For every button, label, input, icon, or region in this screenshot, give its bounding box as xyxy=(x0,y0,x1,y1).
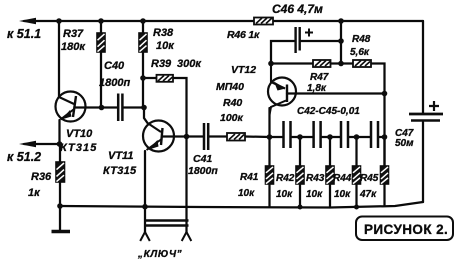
terminal arrow K51.1 xyxy=(7,18,41,41)
terminal arrow K51.2 xyxy=(7,141,41,164)
resistor R36 xyxy=(28,162,65,199)
svg-text:КТ315: КТ315 xyxy=(60,142,97,154)
svg-text:VT12: VT12 xyxy=(231,64,256,76)
node ladder A xyxy=(267,134,273,140)
svg-text:10к: 10к xyxy=(334,189,351,200)
wire R47 emitter line left segment xyxy=(271,62,313,64)
resistor R40 xyxy=(227,133,245,141)
svg-text:180к: 180к xyxy=(61,41,86,53)
wire R36 chain to ground xyxy=(59,144,61,231)
wire VT11 emitter down to rail xyxy=(144,151,146,232)
label C42-C45 value xyxy=(297,106,360,117)
svg-text:R40: R40 xyxy=(223,97,242,109)
resistor R39 xyxy=(151,58,202,82)
wire R41 vertical xyxy=(268,137,270,207)
svg-text:R39: R39 xyxy=(151,58,172,70)
resistor R45 xyxy=(359,166,389,200)
svg-text:R43: R43 xyxy=(306,173,325,184)
capacitor C41 xyxy=(188,123,218,177)
node R47 left xyxy=(268,61,274,67)
wire VT10 emitter down xyxy=(58,120,60,144)
node rail-C46 xyxy=(338,18,344,24)
svg-text:1800п: 1800п xyxy=(99,77,130,89)
svg-text:МП40: МП40 xyxy=(216,81,244,93)
capacitor C43 xyxy=(314,121,321,148)
svg-text:50м: 50м xyxy=(395,138,414,149)
svg-text:47к: 47к xyxy=(359,189,377,200)
transistor VT12 xyxy=(216,64,296,125)
wire cap row segment 2 xyxy=(292,136,313,138)
node C46 right xyxy=(338,38,344,44)
node R47-R48 xyxy=(338,61,344,67)
svg-text:С46 4,7м: С46 4,7м xyxy=(272,2,323,16)
node ground left xyxy=(57,203,63,209)
wire R39 right lead and corner down xyxy=(173,78,187,233)
resistor R47 xyxy=(307,60,331,94)
wire C46 right lead xyxy=(301,40,341,42)
resistor R37 xyxy=(61,28,105,53)
svg-text:R45: R45 xyxy=(360,173,379,184)
capacitor C47 xyxy=(395,101,443,149)
wire jog down to VT11 base xyxy=(144,108,148,124)
wire C46 left lead and drop xyxy=(271,41,294,64)
wire VT10 output to C40 xyxy=(75,106,117,108)
transistor VT11 xyxy=(103,121,174,178)
node R39 tap xyxy=(140,75,146,81)
node VT11 collector xyxy=(184,134,190,140)
svg-text:R44: R44 xyxy=(333,173,352,184)
wire VT12 base line xyxy=(287,92,385,94)
capacitor C40 xyxy=(99,60,130,121)
node ladder C xyxy=(327,134,333,140)
wire R45 on main vertical xyxy=(383,137,385,166)
node R42 bottom xyxy=(298,205,303,210)
transistor VT10 xyxy=(56,92,98,155)
svg-text:5,6к: 5,6к xyxy=(350,47,370,58)
wire VT11 collector to C41 xyxy=(162,135,203,137)
svg-text:С40: С40 xyxy=(104,60,125,72)
wire C41 to R40 xyxy=(209,135,227,137)
wire cap row segment 5 xyxy=(379,136,384,138)
wire R48 right lead corner down xyxy=(371,64,385,206)
svg-text:R47: R47 xyxy=(310,72,329,83)
svg-text:10к: 10к xyxy=(156,40,175,52)
node rail-R38 xyxy=(140,18,146,24)
svg-text:к 51.1: к 51.1 xyxy=(7,27,41,41)
resistor R44 xyxy=(333,166,361,200)
key connector KLYUCH xyxy=(137,221,191,260)
svg-text:10к: 10к xyxy=(306,189,323,200)
svg-text:100к: 100к xyxy=(220,112,244,124)
wire VT12 collector drop xyxy=(268,108,270,137)
svg-text:1,8к: 1,8к xyxy=(307,83,327,94)
wire cap row segment 4 xyxy=(349,136,370,138)
node ladder B xyxy=(297,134,303,140)
svg-text:РИСУНОК 2.: РИСУНОК 2. xyxy=(364,222,448,237)
svg-text:1к: 1к xyxy=(28,187,41,199)
wire R43 vertical xyxy=(329,137,331,208)
resistor R46 xyxy=(227,18,273,42)
node K51.2 xyxy=(57,141,63,147)
svg-text:VT11: VT11 xyxy=(108,150,133,162)
svg-text:КТ315: КТ315 xyxy=(103,165,137,177)
node R37 bottom xyxy=(99,105,105,111)
node rail key xyxy=(142,204,148,210)
node ladder E xyxy=(382,134,388,140)
capacitor C42 xyxy=(284,121,291,148)
wire rail drop to R47 R48 node xyxy=(340,21,342,64)
svg-text:R46 1к: R46 1к xyxy=(227,29,260,41)
wire R42 vertical xyxy=(299,137,301,207)
node ladder D xyxy=(354,134,360,140)
wire C40 to R38 node xyxy=(124,106,144,108)
svg-text:R36: R36 xyxy=(31,171,52,183)
wire R47 to R48 segment xyxy=(331,62,354,64)
wire C47 bottom lead xyxy=(422,122,424,202)
wire R39 left lead xyxy=(143,77,157,79)
wire bottom ground rail xyxy=(60,202,423,208)
node C40 right xyxy=(141,105,147,111)
wire top supply rail xyxy=(24,20,423,22)
caption box RISUNOK 2 xyxy=(356,217,453,241)
capacitor C44 xyxy=(341,121,348,148)
svg-text:VT10: VT10 xyxy=(66,128,93,140)
resistor R41 xyxy=(238,166,274,199)
wire VT10 collector from rail xyxy=(58,21,60,97)
wire R38 branch rail down xyxy=(142,21,144,108)
capacitor C46 xyxy=(272,2,323,53)
resistor R48 xyxy=(350,34,371,67)
ground chassis bar xyxy=(52,230,71,233)
svg-text:С42-С45-0,01: С42-С45-0,01 xyxy=(297,106,360,117)
svg-text:1800п: 1800п xyxy=(188,165,218,177)
svg-text:R37: R37 xyxy=(63,28,84,40)
resistor R42 xyxy=(276,166,304,200)
wire R37 branch rail to mid node xyxy=(100,21,102,108)
svg-text:R42: R42 xyxy=(276,173,295,184)
node rail-R37 xyxy=(98,18,104,24)
node rail-VT10 xyxy=(56,18,62,24)
wire right edge down to C47 top xyxy=(422,21,424,113)
wire R40 to ladder node A xyxy=(245,135,270,138)
svg-text:„КЛЮЧ”: „КЛЮЧ” xyxy=(137,249,182,260)
resistor R43 xyxy=(306,166,334,200)
wire K51.2 input line xyxy=(24,143,60,145)
wire cap row segment 1 xyxy=(270,136,283,138)
node VT12 base xyxy=(382,91,388,97)
node R44 bottom xyxy=(354,205,359,210)
wire cap row segment 3 xyxy=(322,136,340,138)
svg-text:С41: С41 xyxy=(193,153,212,165)
svg-text:10к: 10к xyxy=(238,188,255,199)
svg-text:R41: R41 xyxy=(240,172,259,183)
svg-text:к 51.2: к 51.2 xyxy=(7,150,41,164)
svg-text:300к: 300к xyxy=(177,58,202,70)
wire R44 vertical xyxy=(355,137,357,207)
svg-text:R38: R38 xyxy=(153,27,174,39)
svg-text:10к: 10к xyxy=(276,189,293,200)
capacitor C45 xyxy=(371,121,378,148)
svg-text:R48: R48 xyxy=(352,34,371,45)
resistor R38 xyxy=(139,27,175,52)
